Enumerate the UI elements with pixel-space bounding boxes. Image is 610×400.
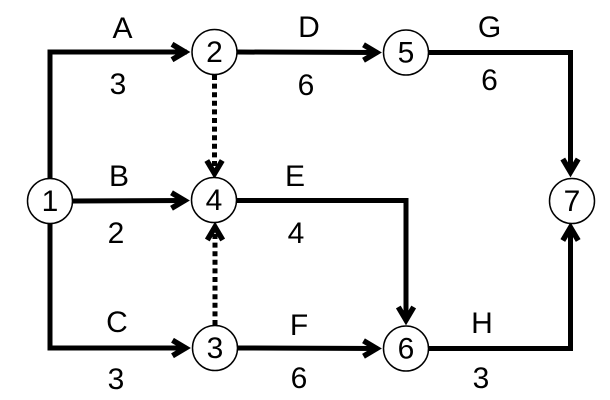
label 6 (duration of G) bbox=[481, 64, 498, 97]
svg-text:2: 2 bbox=[108, 217, 125, 250]
arrowhead into node 7 bbox=[563, 159, 578, 172]
label 4 (duration of E) bbox=[288, 217, 305, 250]
dotted dummy wire (2 to 4) bbox=[212, 75, 217, 168]
node 3 bbox=[193, 326, 238, 371]
label 3 (duration of H) bbox=[473, 362, 490, 395]
svg-text:3: 3 bbox=[207, 332, 224, 365]
svg-text:E: E bbox=[285, 160, 305, 193]
arrowhead into node 2 bbox=[172, 44, 185, 59]
svg-text:3: 3 bbox=[110, 68, 127, 101]
node 5 bbox=[384, 30, 429, 75]
wire edge C (1 to 3) bbox=[50, 222, 187, 348]
svg-text:4: 4 bbox=[288, 217, 305, 250]
svg-text:H: H bbox=[471, 307, 493, 340]
svg-text:2: 2 bbox=[206, 36, 223, 69]
arrowhead into node 3 bbox=[173, 340, 186, 355]
wire edge H (6 to 7) bbox=[429, 232, 571, 349]
svg-text:B: B bbox=[109, 160, 129, 193]
arrowhead into node 4 bbox=[172, 193, 185, 208]
svg-text:F: F bbox=[290, 309, 308, 342]
label D bbox=[298, 11, 320, 44]
svg-text:G: G bbox=[478, 11, 501, 44]
svg-text:5: 5 bbox=[398, 37, 415, 70]
svg-text:A: A bbox=[112, 12, 132, 45]
arrowhead into node 4 top bbox=[207, 161, 222, 174]
arrowhead into node 4 bottom bbox=[207, 227, 222, 240]
dotted dummy wire (3 to 4) bbox=[213, 232, 218, 325]
wire edge E (4 to 6) bbox=[237, 201, 407, 319]
svg-text:6: 6 bbox=[291, 362, 308, 395]
wire edge D (2 to 5) bbox=[237, 50, 378, 56]
svg-text:3: 3 bbox=[108, 363, 125, 396]
arrowhead into node 6 bbox=[398, 307, 413, 320]
label E bbox=[285, 160, 305, 193]
label G bbox=[478, 11, 501, 44]
label A bbox=[112, 12, 132, 45]
label 2 (duration of B) bbox=[108, 217, 125, 250]
label H bbox=[471, 307, 493, 340]
node 2 bbox=[192, 30, 237, 75]
svg-text:C: C bbox=[106, 306, 128, 339]
node 4 bbox=[192, 178, 237, 223]
label C bbox=[106, 306, 128, 339]
node 6 bbox=[384, 326, 429, 371]
wire edge A (1 to 2) bbox=[50, 52, 187, 180]
svg-text:4: 4 bbox=[206, 184, 223, 217]
svg-text:7: 7 bbox=[564, 185, 581, 218]
arrowhead into node 5 bbox=[364, 45, 377, 60]
label F bbox=[290, 309, 308, 342]
svg-text:6: 6 bbox=[481, 64, 498, 97]
label 3 (duration of A) bbox=[110, 68, 127, 101]
svg-text:6: 6 bbox=[398, 333, 415, 366]
node 7 bbox=[550, 179, 595, 224]
svg-text:3: 3 bbox=[473, 362, 490, 395]
svg-text:6: 6 bbox=[298, 69, 315, 102]
label 6 (duration of F) bbox=[291, 362, 308, 395]
node 1 bbox=[28, 179, 73, 224]
arrowhead into node 7 bottom bbox=[563, 228, 578, 241]
label 3 (duration of C) bbox=[108, 363, 125, 396]
svg-text:D: D bbox=[298, 11, 320, 44]
label 6 (duration of D) bbox=[298, 69, 315, 102]
svg-text:1: 1 bbox=[42, 185, 59, 218]
wire edge G (5 to 7) bbox=[429, 53, 571, 171]
label B bbox=[109, 160, 129, 193]
wire edge F (3 to 6) bbox=[238, 346, 379, 352]
wire edge B (1 to 4) bbox=[73, 198, 187, 204]
arrowhead into node 6 left bbox=[364, 341, 377, 356]
